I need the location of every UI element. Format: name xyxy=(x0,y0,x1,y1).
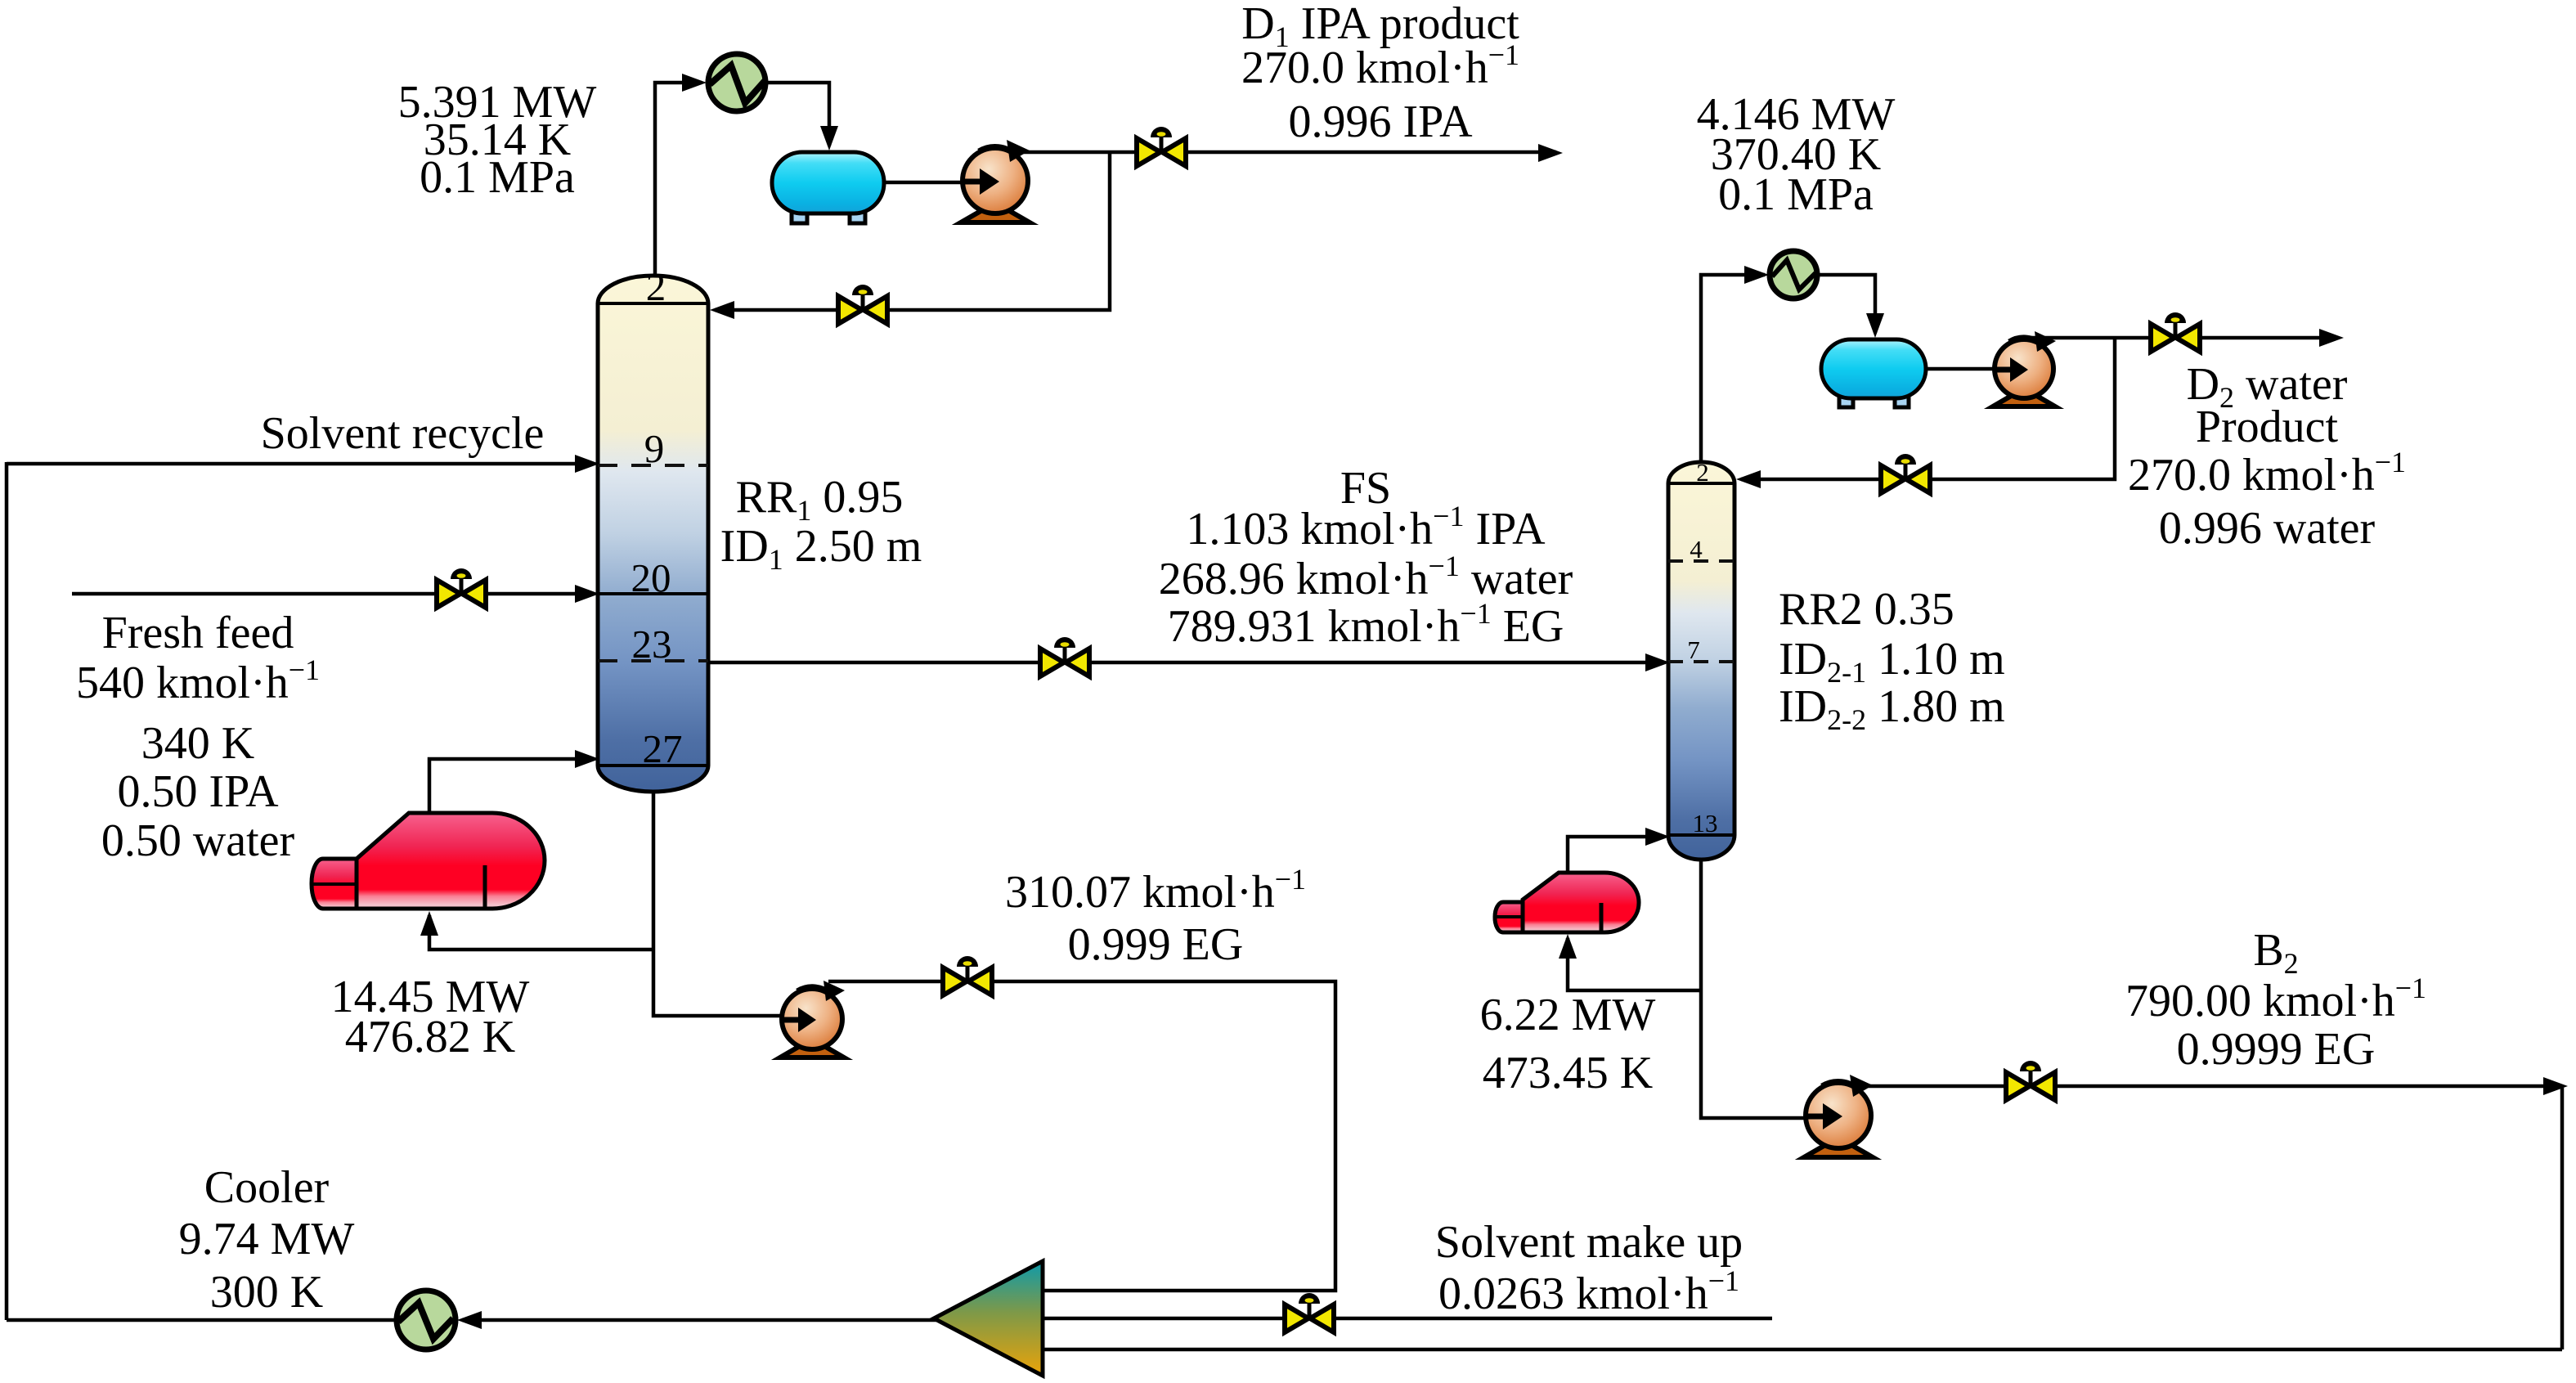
svg-text:RR1 0.95: RR1 0.95 xyxy=(736,472,904,527)
svg-text:0.996 water: 0.996 water xyxy=(2159,503,2376,554)
pump P3 C1 bottoms pump xyxy=(780,981,845,1057)
wire B2 recycle drop xyxy=(2560,1088,2565,1349)
svg-text:0.9999 EG: 0.9999 EG xyxy=(2177,1024,2376,1075)
svg-text:Product: Product xyxy=(2196,402,2339,452)
arrow D1 product xyxy=(1538,144,1563,162)
reflux drum D2 xyxy=(1821,339,1926,407)
svg-text:0.0263 kmol·h−1: 0.0263 kmol·h−1 xyxy=(1438,1264,1739,1319)
arrow D2 product xyxy=(2319,329,2344,347)
svg-text:Solvent make up: Solvent make up xyxy=(1435,1217,1743,1268)
wire C1 bottoms to pump P3 xyxy=(653,790,783,1016)
wire C2 overhead vapor to condenser E2 xyxy=(1701,275,1765,465)
valve V9 fresh feed xyxy=(437,568,486,608)
wire bottom recycle return to mixer xyxy=(1044,1348,2562,1352)
svg-text:Cooler: Cooler xyxy=(204,1162,330,1213)
wire P4 outlet B2 product line xyxy=(1850,1084,2560,1089)
svg-text:476.82 K: 476.82 K xyxy=(345,1012,515,1062)
svg-text:789.931 kmol·h−1 EG: 789.931 kmol·h−1 EG xyxy=(1168,597,1564,652)
C2 tray 2 line xyxy=(1668,482,1735,485)
arrow into condenser E1 xyxy=(682,74,707,92)
wire condenser E1 to reflux drum D1 xyxy=(766,83,829,146)
svg-text:7: 7 xyxy=(1687,635,1700,664)
wire drum D1 to pump P1 xyxy=(884,181,973,185)
cooler E3 xyxy=(397,1291,456,1349)
svg-text:ID2-1 1.10 m: ID2-1 1.10 m xyxy=(1779,634,2005,689)
C1 tray 2 line xyxy=(598,302,708,305)
pump P1 reflux pump xyxy=(961,140,1030,222)
svg-text:20: 20 xyxy=(631,555,671,600)
svg-text:2: 2 xyxy=(1696,458,1709,487)
wire P2 outlet / D2 product line xyxy=(2031,336,2337,340)
wire solvent make-up to mixer middle port xyxy=(1044,1317,1772,1321)
wire P3 outlet EG recycle to mixer top port xyxy=(828,981,1335,1291)
condenser E1 xyxy=(708,54,765,111)
wire cooler outlet segment xyxy=(7,1318,397,1322)
arrow fresh feed into C1 xyxy=(575,585,599,603)
svg-text:Solvent recycle: Solvent recycle xyxy=(261,408,545,459)
reboiler R2 xyxy=(1495,873,1639,932)
svg-text:790.00 kmol·h−1: 790.00 kmol·h−1 xyxy=(2125,972,2426,1026)
valve V2 C1 reflux xyxy=(838,285,887,324)
svg-text:0.50 water: 0.50 water xyxy=(101,815,295,866)
wire recycle left riser xyxy=(5,462,9,1320)
svg-text:0.999 EG: 0.999 EG xyxy=(1068,919,1244,970)
svg-text:0.996 IPA: 0.996 IPA xyxy=(1288,97,1473,147)
svg-text:473.45 K: 473.45 K xyxy=(1483,1048,1653,1098)
pump P4 C2 bottoms pump xyxy=(1804,1075,1873,1157)
column C2 xyxy=(1668,462,1735,860)
wire C2 bottoms to pump P4 xyxy=(1701,858,1812,1118)
wire solvent recycle into C1 tray 9 xyxy=(7,462,593,466)
valve V6 EG recycle xyxy=(943,956,992,995)
arrow into drum D2 xyxy=(1866,313,1884,338)
reflux drum D1 xyxy=(772,152,884,223)
svg-text:540 kmol·h−1: 540 kmol·h−1 xyxy=(76,653,320,708)
arrow B2 product xyxy=(2543,1077,2568,1095)
wire fresh feed into C1 tray 20 xyxy=(72,592,593,596)
arrow into condenser E2 xyxy=(1744,266,1769,284)
svg-text:13: 13 xyxy=(1693,809,1718,837)
valve V5 FS line xyxy=(1040,637,1089,676)
wire reflux line to C1 tray 2 xyxy=(715,152,1110,310)
svg-text:9.74 MW: 9.74 MW xyxy=(179,1214,355,1264)
wire reboiler R2 vapor return to C2 tray 13 xyxy=(1568,837,1663,874)
wire reboiler R1 vapor return to C1 tray 27 xyxy=(429,759,593,815)
wire FS side stream C1 tray 23 to C2 tray 7 xyxy=(708,661,1663,665)
svg-text:2: 2 xyxy=(646,264,666,309)
condenser E2 xyxy=(1770,251,1817,299)
svg-text:ID2-2 1.80 m: ID2-2 1.80 m xyxy=(1779,681,2005,736)
svg-text:340 K: 340 K xyxy=(141,718,254,769)
C2 tray 7 dashed line xyxy=(1668,660,1735,663)
arrow R2 vapor into C2 xyxy=(1645,828,1670,846)
svg-text:300 K: 300 K xyxy=(210,1267,323,1318)
arrow into reboiler R1 xyxy=(420,911,438,936)
C1 tray 27 line xyxy=(598,764,708,767)
svg-text:27: 27 xyxy=(643,726,683,771)
valve V3 D2 product xyxy=(2151,312,2200,352)
wire mixer outlet to cooler xyxy=(462,1318,939,1322)
mixer M1 xyxy=(934,1261,1043,1376)
C1 tray 23 dashed line xyxy=(598,659,708,662)
C2 tray 13 line xyxy=(1668,833,1735,837)
valve V4 C2 reflux xyxy=(1881,454,1930,493)
wire reflux line to C2 tray 2 xyxy=(1741,338,2115,479)
arrow into drum D1 xyxy=(820,126,838,150)
arrow into cooler E3 xyxy=(457,1311,482,1329)
C2 tray 4 dashed line xyxy=(1668,559,1735,563)
wire C1 overhead vapor to condenser E1 xyxy=(655,83,702,278)
svg-text:9: 9 xyxy=(644,426,665,471)
arrow R1 vapor into C1 xyxy=(575,750,599,768)
svg-text:23: 23 xyxy=(632,622,672,667)
valve V7 B2 product xyxy=(2006,1061,2055,1100)
svg-text:0.50 IPA: 0.50 IPA xyxy=(117,766,279,817)
wire condenser E2 to reflux drum D2 xyxy=(1817,275,1875,333)
arrow reflux into C1 xyxy=(710,301,734,319)
wire C1 bottoms branch to reboiler R1 xyxy=(429,915,653,950)
wire C2 bottoms branch to reboiler R2 xyxy=(1568,938,1701,990)
reboiler R1 xyxy=(312,813,545,909)
svg-text:270.0 kmol·h−1: 270.0 kmol·h−1 xyxy=(1241,38,1519,93)
column C1 xyxy=(598,276,708,792)
svg-text:268.96 kmol·h−1 water: 268.96 kmol·h−1 water xyxy=(1159,550,1573,604)
C1 tray 20 line xyxy=(598,592,708,595)
wire drum D2 to pump P2 xyxy=(1926,367,2004,371)
wire P1 outlet / D1 product line xyxy=(999,150,1556,155)
svg-text:Fresh feed: Fresh feed xyxy=(102,608,294,658)
valve V8 solvent make-up xyxy=(1285,1293,1334,1332)
pump P2 xyxy=(1993,331,2056,406)
svg-text:0.1 MPa: 0.1 MPa xyxy=(1718,169,1874,220)
svg-text:270.0 kmol·h−1: 270.0 kmol·h−1 xyxy=(2128,446,2406,501)
svg-text:RR2 0.35: RR2 0.35 xyxy=(1779,584,1954,635)
svg-text:6.22 MW: 6.22 MW xyxy=(1480,990,1656,1040)
arrow into reboiler R2 xyxy=(1559,934,1577,959)
svg-text:0.1 MPa: 0.1 MPa xyxy=(420,152,575,203)
svg-text:4: 4 xyxy=(1690,535,1703,564)
svg-text:ID1 2.50 m: ID1 2.50 m xyxy=(720,521,922,576)
arrow FS into C2 xyxy=(1645,653,1670,671)
svg-text:B2: B2 xyxy=(2253,925,2298,980)
C1 tray 9 dashed line xyxy=(598,464,708,467)
valve V1 D1 product xyxy=(1137,127,1186,166)
svg-text:1.103 kmol·h−1 IPA: 1.103 kmol·h−1 IPA xyxy=(1186,500,1546,555)
arrow solvent recycle into C1 xyxy=(575,455,599,473)
arrow reflux into C2 xyxy=(1736,470,1761,488)
svg-text:310.07 kmol·h−1: 310.07 kmol·h−1 xyxy=(1005,863,1306,918)
